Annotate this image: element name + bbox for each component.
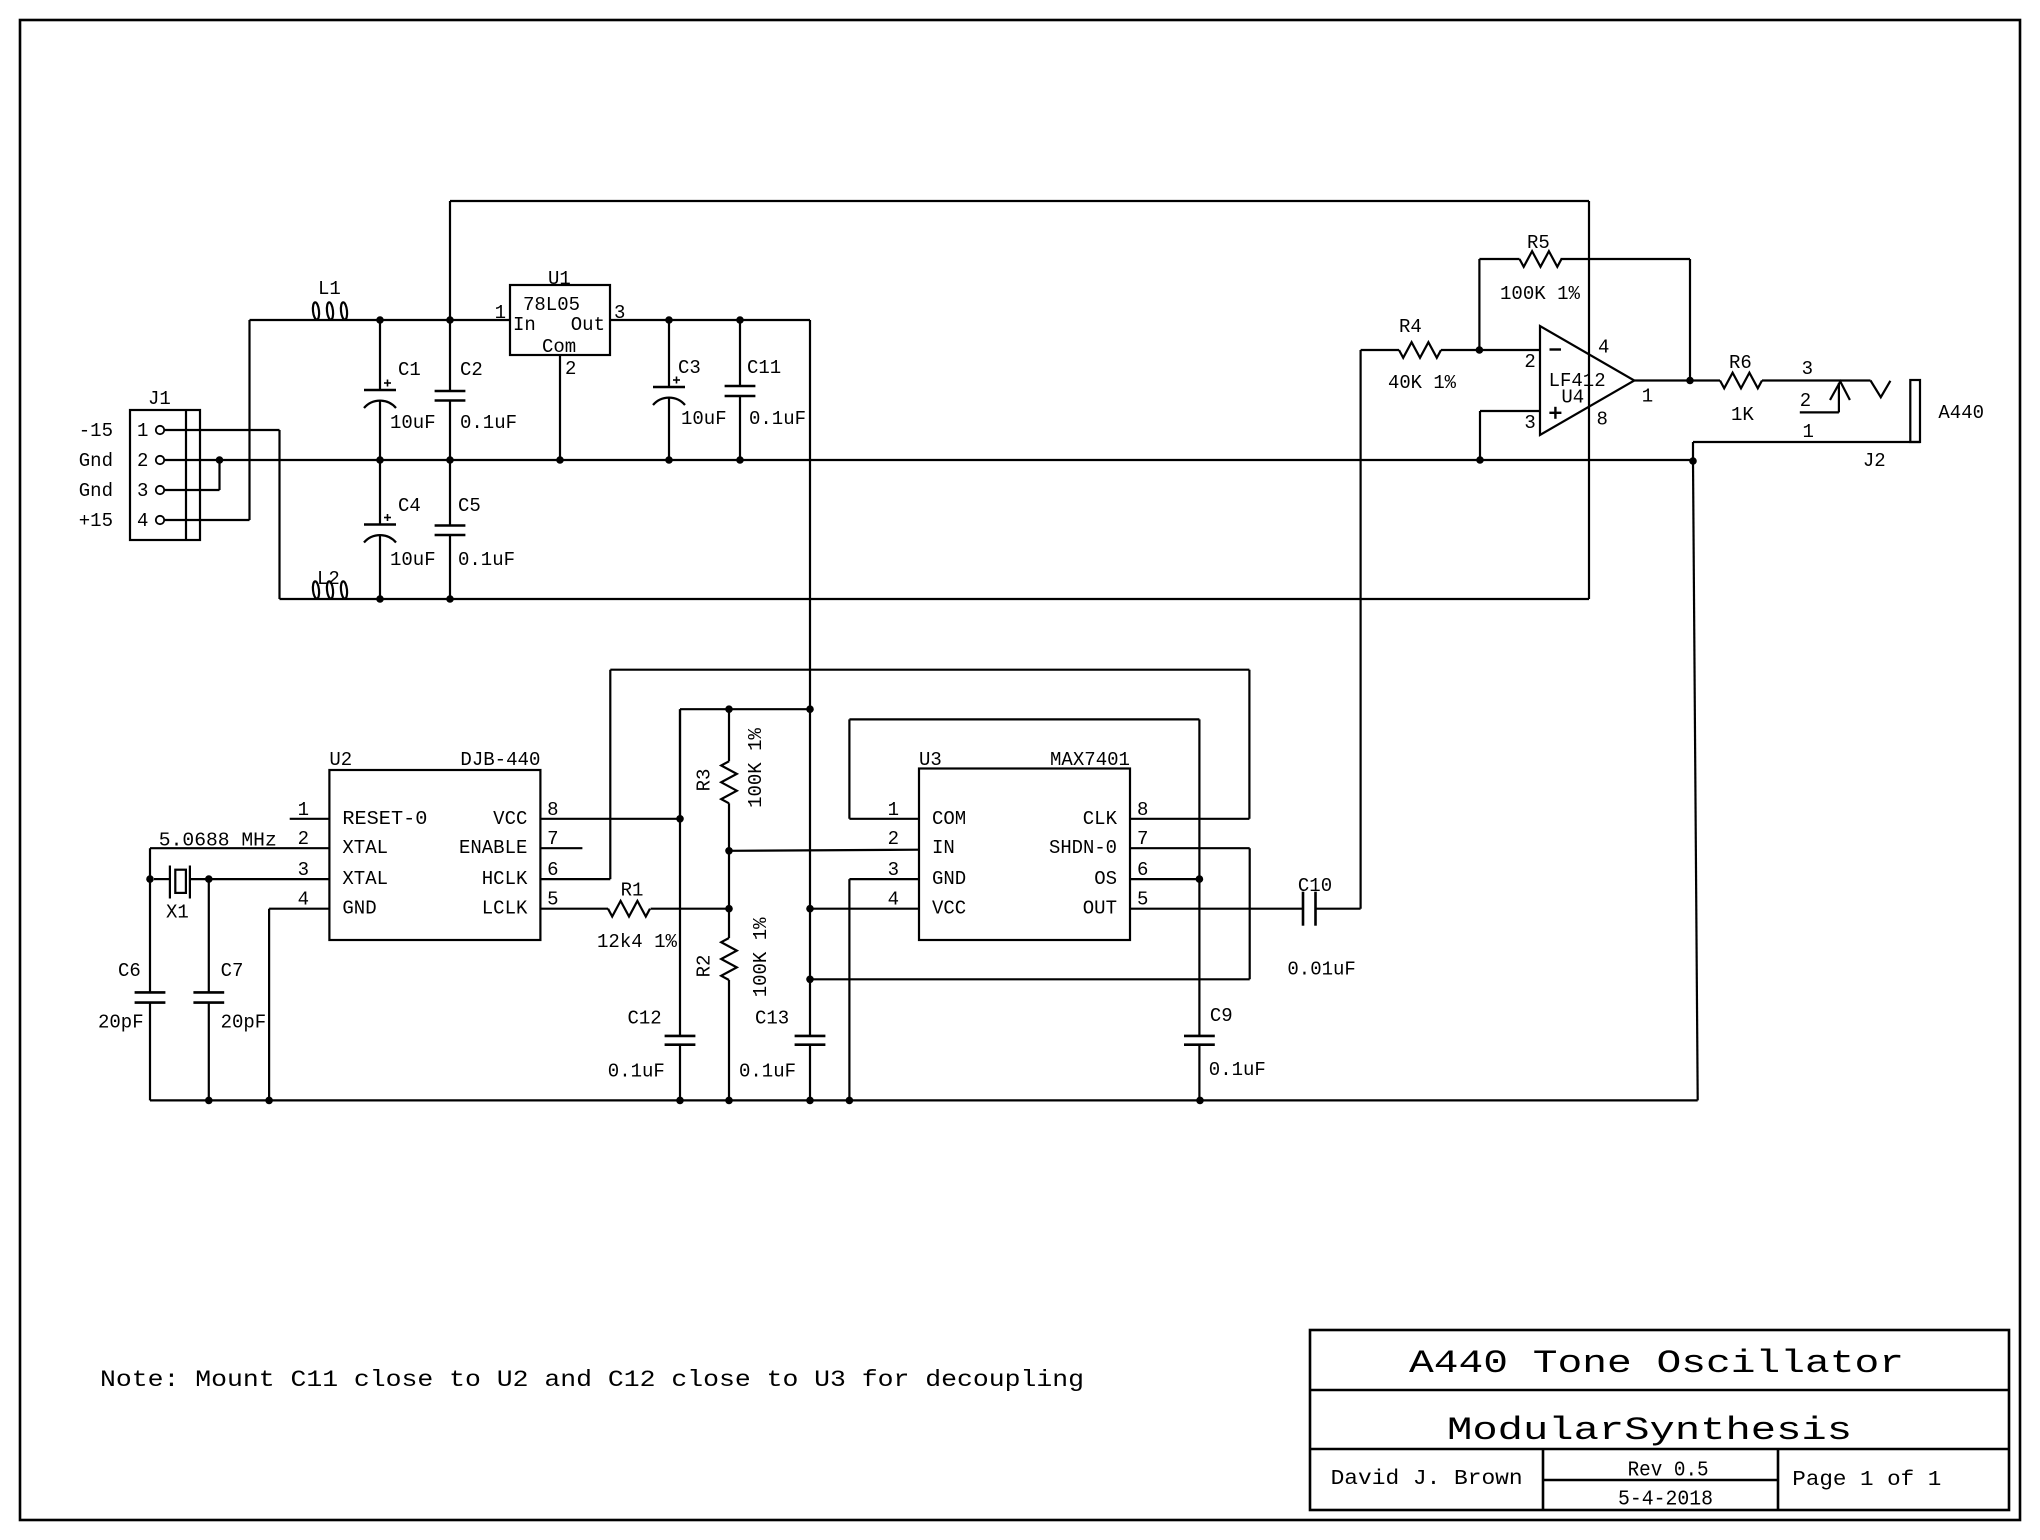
- svg-text:C4: C4: [398, 495, 421, 517]
- svg-text:8: 8: [1597, 408, 1608, 430]
- op-amp minus sign: [1550, 348, 1562, 350]
- wire U2 pin8 VCC: [540, 818, 680, 820]
- node R3 top junction: [725, 705, 733, 713]
- wire COM riser: [848, 719, 850, 818]
- node C1 bottom junction: [376, 456, 384, 464]
- node VCC C12 junction: [676, 815, 684, 823]
- wire U1 Com to ground: [559, 355, 561, 460]
- resistor R4: [1399, 342, 1441, 358]
- node C4 bottom junction: [376, 595, 384, 603]
- node C12 ground junction: [676, 1097, 684, 1105]
- svg-text:5: 5: [1137, 889, 1148, 911]
- wire U3 pin5 OUT: [1130, 908, 1303, 910]
- wire -15 riser down to L2 rail: [278, 430, 280, 599]
- wire VCC riser corner: [679, 709, 681, 819]
- wire X1 right lead: [190, 878, 209, 880]
- wire SHDN drop: [1249, 848, 1251, 979]
- wire R1 to divider: [651, 908, 729, 910]
- J1 pin 1 circle: [156, 426, 164, 434]
- svg-text:3: 3: [888, 859, 899, 881]
- svg-text:4: 4: [888, 889, 899, 911]
- svg-text:1: 1: [1803, 421, 1814, 443]
- svg-text:2: 2: [888, 828, 899, 850]
- J1 pin 3 circle: [156, 486, 164, 494]
- wire L2 rail to op-amp V-: [350, 598, 1589, 600]
- wire J1 pin3 riser to ground: [218, 460, 220, 490]
- capacitor C3: [668, 320, 670, 387]
- wire op-amp output: [1634, 379, 1720, 381]
- wire C10 right lead: [1316, 908, 1361, 910]
- wire COM drop to OS: [1198, 719, 1200, 1036]
- svg-text:R6: R6: [1729, 352, 1752, 374]
- svg-text:Gnd: Gnd: [79, 480, 113, 502]
- svg-text:3: 3: [1524, 412, 1535, 434]
- svg-text:C12: C12: [628, 1008, 662, 1030]
- svg-text:DJB-440: DJB-440: [460, 749, 540, 771]
- capacitor C13: [795, 1035, 826, 1038]
- wire J1 pin2 ground rail: [164, 459, 1693, 461]
- resistor R1: [608, 901, 650, 917]
- node opamp +input ground junction: [1476, 456, 1484, 464]
- svg-text:David J. Brown: David J. Brown: [1331, 1468, 1523, 1491]
- title block frame: [1310, 1330, 2009, 1510]
- svg-text:XTAL: XTAL: [342, 837, 388, 859]
- wire U2 pin7 ENABLE stub: [540, 847, 582, 849]
- node inverting input junction: [1476, 346, 1484, 354]
- wire U2 pin2 XTAL: [150, 847, 329, 849]
- wire J1 pin3 stub: [164, 489, 220, 491]
- svg-text:2: 2: [298, 828, 309, 850]
- svg-text:100K 1%: 100K 1%: [745, 728, 767, 808]
- resistor R5: [1479, 258, 1519, 260]
- svg-text:CLK: CLK: [1083, 808, 1118, 830]
- svg-text:A440: A440: [1938, 402, 1984, 424]
- wire U2 pin5 LCLK: [540, 908, 608, 910]
- title block vertical divider 2: [1777, 1449, 1780, 1510]
- wire ground up-jog to sleeve: [1692, 442, 1694, 461]
- node SHDN ground junction: [846, 1097, 854, 1105]
- resistor R2: [721, 938, 737, 980]
- wire R4 to op-amp: [1441, 349, 1540, 351]
- svg-text:J1: J1: [148, 388, 171, 410]
- node C2 bottom junction: [446, 456, 454, 464]
- jack J2 body bar: [1910, 380, 1920, 442]
- svg-text:78L05: 78L05: [523, 294, 580, 316]
- node C11 top junction: [736, 316, 744, 324]
- node C1 top junction: [376, 316, 384, 324]
- svg-text:100K 1%: 100K 1%: [1500, 283, 1581, 305]
- wire R5 left riser: [1478, 259, 1480, 350]
- svg-text:0.1uF: 0.1uF: [1209, 1059, 1266, 1081]
- wire U1 out rail: [610, 319, 810, 321]
- wire bottom ground rail: [150, 1099, 1698, 1101]
- svg-text:VCC: VCC: [932, 898, 966, 920]
- connector J1 body: [130, 410, 200, 540]
- wire -15 rail into L2: [280, 598, 309, 600]
- capacitor C4: [379, 460, 381, 525]
- svg-text:U2: U2: [329, 749, 352, 771]
- svg-text:1K: 1K: [1731, 404, 1754, 426]
- svg-text:COM: COM: [932, 808, 966, 830]
- svg-text:4: 4: [137, 510, 148, 532]
- svg-text:MAX7401: MAX7401: [1050, 749, 1130, 771]
- inductor L2: [308, 598, 350, 600]
- op-amp U4 triangle: [1540, 326, 1634, 435]
- capacitor C12: [679, 709, 681, 1036]
- svg-text:OUT: OUT: [1083, 898, 1117, 920]
- inductor L1: [308, 319, 350, 321]
- svg-text:0.1uF: 0.1uF: [608, 1061, 665, 1083]
- svg-text:12k4 1%: 12k4 1%: [597, 931, 678, 953]
- svg-text:OS: OS: [1094, 868, 1117, 890]
- wire L1 to U1 input: [350, 319, 510, 321]
- wire J1 pin1 to -15 riser: [164, 429, 280, 431]
- svg-text:10uF: 10uF: [390, 412, 436, 434]
- node R1 divider junction: [725, 905, 733, 913]
- svg-text:XTAL: XTAL: [342, 868, 388, 890]
- node X1 left junction: [146, 875, 154, 883]
- svg-text:C10: C10: [1298, 875, 1332, 897]
- svg-text:1: 1: [1642, 385, 1653, 407]
- svg-text:C9: C9: [1210, 1005, 1233, 1027]
- capacitor C1: [379, 320, 381, 390]
- capacitor C10: [1302, 892, 1305, 926]
- node output ground corner junction: [1689, 457, 1697, 465]
- svg-text:Rev 0.5: Rev 0.5: [1628, 1460, 1709, 1483]
- wire op-amp +input: [1480, 410, 1540, 412]
- svg-text:ENABLE: ENABLE: [459, 837, 527, 859]
- wire U3 pin8 CLK: [1130, 818, 1249, 820]
- svg-text:0.1uF: 0.1uF: [458, 549, 515, 571]
- wire U2 pin1 stub: [290, 818, 330, 820]
- svg-text:R2: R2: [694, 955, 716, 978]
- wire R3 top run: [680, 708, 810, 710]
- svg-text:SHDN-0: SHDN-0: [1049, 837, 1117, 859]
- node +5 U3 VCC junction: [806, 905, 814, 913]
- resistor R3: [728, 709, 730, 761]
- svg-text:U3: U3: [919, 749, 942, 771]
- wire U3 pin7 SHDN: [1130, 847, 1250, 849]
- capacitor C2: [449, 201, 451, 391]
- wire R4 left lead: [1361, 349, 1399, 351]
- svg-text:IN: IN: [932, 837, 955, 859]
- svg-text:C13: C13: [755, 1008, 789, 1030]
- svg-text:C5: C5: [458, 495, 481, 517]
- node C11 bottom junction: [736, 456, 744, 464]
- node C7 ground junction: [205, 1097, 213, 1105]
- wire op-amp supply vertical: [1588, 201, 1590, 599]
- svg-text:20pF: 20pF: [98, 1012, 144, 1034]
- wire U3 pin3 GND: [849, 878, 919, 880]
- wire R5 right drop: [1689, 259, 1691, 381]
- svg-text:6: 6: [547, 859, 558, 881]
- node J1 pin3 junction: [216, 456, 224, 464]
- node R2 ground junction: [725, 1097, 733, 1105]
- svg-text:2: 2: [1524, 351, 1535, 373]
- svg-text:R3: R3: [694, 769, 716, 792]
- svg-text:1: 1: [298, 799, 309, 821]
- J1 pin 2 circle: [156, 456, 164, 464]
- wire J1 pin4 stub: [164, 519, 250, 521]
- jack J2 ring stub: [1800, 411, 1839, 413]
- svg-text:3: 3: [137, 480, 148, 502]
- svg-text:R1: R1: [621, 879, 644, 901]
- svg-text:C6: C6: [118, 960, 141, 982]
- svg-text:10uF: 10uF: [681, 408, 727, 430]
- wire U2 pin6 HCLK: [540, 878, 610, 880]
- wire HCLK riser: [609, 670, 611, 879]
- regulator U1 box: [510, 285, 610, 355]
- wire X1 left lead: [154, 878, 170, 880]
- svg-text:40K 1%: 40K 1%: [1388, 372, 1457, 394]
- node C2 top junction: [446, 316, 454, 324]
- capacitor C7: [193, 991, 224, 994]
- svg-text:0.1uF: 0.1uF: [739, 1061, 796, 1083]
- svg-text:0.01uF: 0.01uF: [1287, 959, 1355, 981]
- wire U3 GND drop: [848, 879, 850, 1100]
- title block rev/date divider: [1543, 1479, 1778, 1482]
- svg-text:GND: GND: [932, 868, 966, 890]
- op-amp plus sign: [1549, 412, 1561, 414]
- svg-text:Note: Mount C11 close to U2 an: Note: Mount C11 close to U2 and C12 clos…: [100, 1367, 1084, 1393]
- wire U2 pin3 XTAL: [209, 878, 330, 880]
- svg-text:C11: C11: [747, 357, 781, 379]
- wire HCLK top run: [610, 669, 1249, 671]
- svg-text:R5: R5: [1527, 232, 1550, 254]
- node divider IN junction: [725, 847, 733, 855]
- jack J2 ring arrow: [1838, 383, 1840, 412]
- node C3 bottom junction: [665, 456, 673, 464]
- node X1 right junction: [205, 875, 213, 883]
- node SHDN +5 junction: [806, 976, 814, 984]
- svg-text:Page 1 of 1: Page 1 of 1: [1792, 1469, 1941, 1492]
- svg-text:10uF: 10uF: [390, 549, 436, 571]
- svg-text:LCLK: LCLK: [482, 898, 528, 920]
- svg-text:20pF: 20pF: [221, 1012, 267, 1034]
- svg-text:-15: -15: [79, 420, 113, 442]
- svg-text:+15: +15: [79, 510, 113, 532]
- wire U2 GND drop: [268, 909, 270, 1101]
- title block vertical divider 1: [1542, 1449, 1545, 1510]
- svg-text:1: 1: [495, 302, 506, 324]
- svg-text:HCLK: HCLK: [482, 868, 528, 890]
- svg-text:2: 2: [137, 450, 148, 472]
- wire ground drop right side: [1693, 461, 1698, 1100]
- svg-text:A440 Tone Oscillator: A440 Tone Oscillator: [1409, 1345, 1904, 1382]
- svg-text:L2: L2: [317, 568, 340, 590]
- svg-text:4: 4: [1598, 337, 1609, 359]
- crystal X1: [169, 866, 171, 899]
- jack J2 tip contact: [1871, 381, 1891, 398]
- wire CLK drop: [1248, 670, 1250, 819]
- svg-text:5.0688 MHz: 5.0688 MHz: [159, 829, 277, 851]
- wire C7 drop: [208, 879, 210, 992]
- wire R6 to jack tip: [1762, 379, 1871, 381]
- capacitor C5: [449, 460, 451, 526]
- node C13 ground junction: [806, 1097, 814, 1105]
- svg-text:3: 3: [1802, 358, 1813, 380]
- svg-text:C7: C7: [221, 960, 244, 982]
- svg-text:Out: Out: [571, 314, 605, 336]
- svg-text:5: 5: [547, 889, 558, 911]
- svg-text:Gnd: Gnd: [79, 450, 113, 472]
- capacitor C11: [739, 320, 741, 386]
- wire U3 COM: [849, 818, 919, 820]
- wire +5 rail down: [809, 320, 811, 1036]
- svg-text:RESET-0: RESET-0: [342, 808, 427, 830]
- wire divider mid: [728, 851, 730, 938]
- svg-text:4: 4: [298, 889, 309, 911]
- wire XTAL left drop: [149, 848, 151, 992]
- svg-text:GND: GND: [342, 898, 376, 920]
- svg-text:C2: C2: [460, 359, 483, 381]
- svg-text:8: 8: [1137, 799, 1148, 821]
- svg-text:2: 2: [565, 358, 576, 380]
- svg-text:8: 8: [547, 799, 558, 821]
- resistor R6: [1720, 373, 1762, 389]
- svg-text:1: 1: [137, 420, 148, 442]
- svg-text:J2: J2: [1863, 450, 1886, 472]
- node U2 GND ground junction: [265, 1097, 273, 1105]
- wire +input drop to ground: [1479, 411, 1481, 460]
- J1 pin 4 circle: [156, 516, 164, 524]
- ic U2 box: [329, 770, 540, 940]
- svg-text:X1: X1: [166, 901, 189, 923]
- capacitor C6: [135, 991, 166, 994]
- svg-text:1: 1: [888, 799, 899, 821]
- wire U3 pin6 OS: [1130, 878, 1199, 880]
- node U1 Com junction: [556, 456, 564, 464]
- capacitor C9: [1184, 1035, 1215, 1038]
- wire U3 pin4 VCC: [810, 908, 919, 910]
- node C9 ground junction: [1196, 1097, 1204, 1105]
- svg-text:Com: Com: [542, 336, 576, 358]
- node OS junction: [1196, 875, 1204, 883]
- title block divider row2: [1310, 1448, 2009, 1451]
- wire COM top run: [849, 718, 1199, 720]
- ic U3 box: [919, 769, 1130, 941]
- jack J2 sleeve wire: [1693, 441, 1920, 443]
- node C3 top junction: [665, 316, 673, 324]
- wire C10 riser to R4: [1359, 350, 1361, 909]
- svg-text:0.1uF: 0.1uF: [460, 412, 517, 434]
- svg-text:100K 1%: 100K 1%: [750, 917, 772, 997]
- svg-text:ModularSynthesis: ModularSynthesis: [1447, 1412, 1852, 1449]
- node output junction: [1686, 377, 1694, 385]
- svg-text:3: 3: [298, 859, 309, 881]
- svg-text:In: In: [513, 314, 536, 336]
- node C5 bottom junction: [446, 595, 454, 603]
- svg-text:L1: L1: [318, 278, 341, 300]
- svg-text:7: 7: [547, 828, 558, 850]
- title block divider row1: [1310, 1389, 2009, 1392]
- wire SHDN bottom run: [810, 978, 1250, 980]
- wire divider to U3 IN: [729, 850, 919, 851]
- node +5 R3 junction: [806, 705, 814, 713]
- svg-text:R4: R4: [1399, 316, 1422, 338]
- svg-text:U4: U4: [1561, 387, 1584, 409]
- svg-text:5-4-2018: 5-4-2018: [1618, 1489, 1713, 1512]
- svg-text:U1: U1: [548, 268, 571, 290]
- wire +15 top line: [450, 200, 1589, 202]
- svg-text:6: 6: [1137, 859, 1148, 881]
- svg-text:0.1uF: 0.1uF: [749, 408, 806, 430]
- svg-text:7: 7: [1137, 828, 1148, 850]
- wire +15 rail into L1: [250, 319, 309, 321]
- wire +15 riser up to L1 rail: [248, 320, 250, 520]
- svg-text:2: 2: [1800, 390, 1811, 412]
- svg-text:VCC: VCC: [493, 808, 527, 830]
- svg-text:C1: C1: [398, 359, 421, 381]
- svg-text:C3: C3: [678, 357, 701, 379]
- wire U2 pin4 GND: [269, 908, 329, 910]
